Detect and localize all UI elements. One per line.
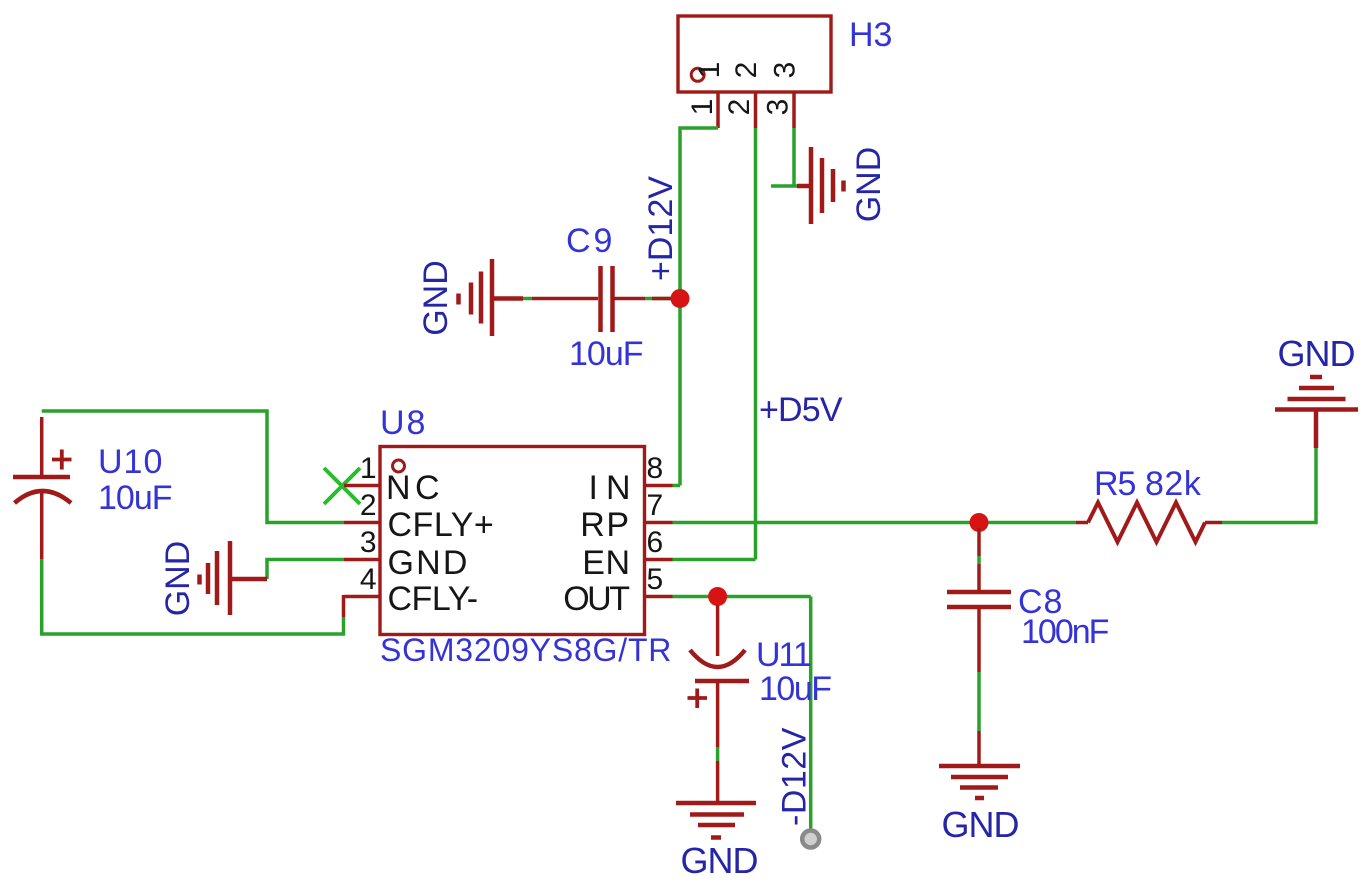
connector H3 bbox=[678, 16, 831, 92]
svg-text:10uF: 10uF bbox=[98, 479, 172, 517]
wire pin8 riser to +D12V bbox=[673, 484, 681, 488]
svg-text:1: 1 bbox=[360, 452, 377, 485]
svg-text:CFLY-: CFLY- bbox=[388, 580, 478, 618]
U10 plus sign bbox=[52, 450, 72, 470]
junction dot +D12V node bbox=[671, 289, 690, 308]
svg-text:GND: GND bbox=[850, 147, 888, 223]
wire GND to pin3 bbox=[267, 560, 344, 580]
svg-text:5: 5 bbox=[647, 563, 664, 596]
svg-text:3: 3 bbox=[762, 99, 795, 116]
svg-text:GND: GND bbox=[942, 804, 1019, 845]
svg-text:GND: GND bbox=[417, 260, 455, 336]
ground symbol below U11 bbox=[676, 803, 756, 838]
wire C8 upper lead green segment bbox=[977, 556, 981, 564]
U8 pin 2 stub bbox=[344, 521, 380, 525]
svg-text:3: 3 bbox=[769, 62, 802, 79]
U8 pin 4 stub bbox=[344, 595, 380, 599]
pin4 riser red part bbox=[342, 595, 346, 617]
U11 plus sign bbox=[688, 689, 708, 709]
svg-text:2: 2 bbox=[730, 62, 763, 79]
unconnected endpoint circle bbox=[802, 831, 819, 848]
wire -D12V vertical bbox=[809, 597, 813, 834]
svg-text:8: 8 bbox=[647, 452, 664, 485]
IC U8 body bbox=[380, 447, 645, 635]
svg-text:IN: IN bbox=[589, 469, 639, 507]
capacitor C9 bbox=[532, 266, 645, 332]
svg-text:GND: GND bbox=[388, 544, 470, 582]
wire R5 to GND corner bbox=[1222, 448, 1316, 523]
svg-text:10uF: 10uF bbox=[569, 335, 643, 373]
svg-text:U11: U11 bbox=[756, 636, 811, 674]
svg-text:U8: U8 bbox=[380, 404, 427, 442]
C9 lead into node bbox=[652, 297, 674, 301]
svg-text:OUT: OUT bbox=[563, 580, 629, 618]
svg-text:GND: GND bbox=[159, 541, 197, 617]
svg-text:R5: R5 bbox=[1094, 465, 1136, 503]
svg-text:GND: GND bbox=[681, 840, 758, 881]
junction dot OUT node bbox=[708, 587, 727, 606]
svg-text:1: 1 bbox=[686, 99, 719, 116]
ground symbol near H3 bbox=[797, 147, 844, 224]
wire stub at H3 GND bbox=[771, 184, 797, 188]
svg-text:2: 2 bbox=[723, 99, 756, 116]
C8 lower lead bbox=[977, 731, 981, 764]
wire H3 pin2 down (+D5V net) bbox=[754, 128, 758, 560]
svg-text:H3: H3 bbox=[849, 16, 892, 54]
svg-text:10uF: 10uF bbox=[759, 670, 831, 708]
ground symbol at U8 pin3 bbox=[200, 541, 268, 615]
capacitor U10 polarized bbox=[13, 417, 71, 559]
wire C8 to GND bbox=[977, 672, 981, 731]
ground symbol at C9 bbox=[459, 259, 524, 336]
wire OUT net bbox=[673, 595, 811, 599]
wire RP net (pin7 to R5) bbox=[673, 521, 1077, 525]
svg-text:-D12V: -D12V bbox=[776, 727, 814, 826]
U8 pin 3 stub bbox=[344, 558, 380, 562]
svg-text:100nF: 100nF bbox=[1021, 613, 1109, 651]
capacitor U11 polarized bbox=[690, 605, 749, 747]
svg-text:2: 2 bbox=[360, 489, 377, 522]
H3 pin 3 stub bbox=[792, 92, 796, 128]
svg-text:3: 3 bbox=[360, 526, 377, 559]
svg-text:C9: C9 bbox=[566, 222, 615, 260]
svg-text:SGM3209YS8G/TR: SGM3209YS8G/TR bbox=[380, 632, 672, 668]
wire C9 to junction bbox=[645, 297, 676, 301]
U8 pin 1 stub bbox=[344, 484, 380, 488]
svg-text:CFLY+: CFLY+ bbox=[388, 506, 495, 544]
ground symbol top right (inverted) bbox=[1275, 377, 1358, 448]
svg-text:GND: GND bbox=[1278, 333, 1355, 374]
capacitor C8 bbox=[947, 528, 1011, 672]
wire GND to C9 bbox=[523, 297, 532, 301]
U8 pin 6 stub bbox=[645, 558, 673, 562]
svg-text:1: 1 bbox=[693, 62, 726, 79]
svg-text:7: 7 bbox=[647, 489, 664, 522]
H3 pin 2 stub bbox=[754, 92, 758, 128]
U8 pin 8 stub bbox=[645, 484, 673, 488]
svg-text:RP: RP bbox=[580, 506, 630, 544]
wire EN to +D5V bbox=[673, 558, 756, 562]
resistor R5 bbox=[1076, 503, 1222, 543]
svg-text:+D5V: +D5V bbox=[759, 391, 843, 429]
wire U10 bottom loop to pin4 bbox=[42, 559, 344, 634]
H3 pin 1 indicator circle bbox=[691, 68, 704, 81]
wire H3 pin1 to +D12V vertical bbox=[680, 128, 718, 486]
wire CFLY+ from U10 top loop bbox=[42, 411, 344, 523]
U8 pin 5 stub bbox=[645, 595, 673, 599]
U11 lower lead bbox=[716, 761, 720, 802]
svg-text:NC: NC bbox=[386, 469, 444, 507]
U8 pin 7 stub bbox=[645, 521, 673, 525]
junction dot RP/C8 node bbox=[970, 513, 989, 532]
svg-text:6: 6 bbox=[647, 526, 664, 559]
svg-text:4: 4 bbox=[360, 563, 377, 596]
ground symbol below C8 bbox=[939, 766, 1020, 798]
svg-text:EN: EN bbox=[582, 544, 630, 582]
svg-text:U10: U10 bbox=[98, 443, 163, 481]
svg-text:82k: 82k bbox=[1145, 465, 1202, 503]
wire U11 to GND bbox=[716, 747, 720, 761]
svg-text:+D12V: +D12V bbox=[642, 176, 680, 281]
H3 pin 1 stub bbox=[716, 92, 720, 128]
U8 pin1 indicator circle bbox=[393, 460, 405, 472]
wire H3 pin3 down to GND bbox=[792, 128, 796, 186]
no-connect X on pin 1 bbox=[324, 468, 360, 504]
